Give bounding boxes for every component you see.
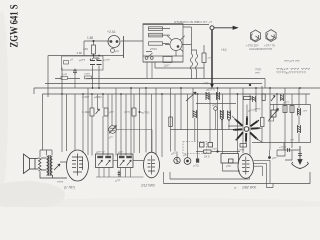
svg-text:4.80: 4.80	[77, 51, 83, 55]
svg-text:1,88: 1,88	[87, 36, 93, 40]
node dot	[96, 59, 97, 60]
wire arrow right	[214, 26, 238, 29]
node dots coils	[221, 119, 223, 121]
svg-text:µ??: µ??	[272, 156, 277, 160]
wire top bus	[143, 24, 209, 26]
wire	[245, 141, 247, 144]
resistor R12	[204, 150, 212, 153]
wire	[192, 88, 194, 110]
resistor R3	[149, 33, 163, 37]
svg-text:+10: +10	[221, 48, 227, 52]
wire	[133, 94, 135, 153]
svg-text:µ??: µ??	[118, 150, 123, 154]
wire coil drops	[195, 110, 229, 141]
wire right area	[270, 105, 311, 143]
tube socket hexagon H2	[266, 30, 276, 42]
wire corner	[264, 79, 266, 89]
coil L2	[206, 92, 209, 100]
wire	[254, 160, 270, 183]
wire	[266, 184, 273, 188]
wire	[163, 172, 165, 184]
wire	[47, 56, 49, 98]
resistor R9	[132, 108, 136, 116]
wire	[171, 129, 235, 131]
shield box around caps	[62, 56, 104, 70]
power unit box T1	[143, 24, 204, 79]
capacitor C6	[288, 148, 290, 152]
resistor R2	[149, 27, 163, 31]
wire	[276, 94, 278, 112]
potentiometer P2	[271, 96, 275, 102]
wire	[254, 163, 267, 187]
capacitor block dark	[196, 159, 199, 163]
resistor R7	[90, 108, 94, 116]
loudspeaker LS1	[24, 154, 36, 174]
right bottom wires	[277, 150, 292, 160]
wire	[249, 94, 251, 155]
svg-text:160: 160	[83, 47, 88, 51]
wire	[94, 41, 100, 58]
title ZGW 641 S	[7, 4, 21, 47]
svg-text:4.4?: 4.4?	[62, 73, 68, 77]
wire	[47, 150, 53, 155]
earth anchor symbol	[292, 146, 309, 169]
tube socket hexagon H1	[250, 30, 260, 42]
wire	[40, 172, 67, 179]
svg-text:µ?Ω: µ?Ω	[194, 164, 199, 168]
node bus junction dots	[61, 84, 301, 95]
svg-text:µ(Ω??): µ(Ω??)	[206, 88, 215, 92]
wire	[116, 130, 152, 153]
bottom long bus	[164, 172, 311, 184]
node grid stopper	[118, 171, 121, 178]
svg-text:µ?? ??: µ?? ??	[96, 150, 105, 154]
resistor in box	[64, 61, 69, 65]
coil L6	[228, 111, 231, 120]
wire	[143, 62, 204, 68]
wire	[277, 149, 300, 151]
wire	[155, 88, 157, 154]
svg-text:µ??: µ??	[171, 152, 176, 156]
wire	[269, 150, 271, 158]
svg-text:????: ????	[57, 180, 64, 184]
svg-text:≈????: ≈????	[279, 146, 287, 150]
wire	[96, 176, 144, 178]
capacitor block C5	[283, 106, 294, 113]
wire	[174, 94, 176, 152]
wire	[45, 83, 262, 85]
svg-text:12A?: 12A?	[164, 64, 171, 68]
svg-text:µ??: µ??	[108, 136, 113, 140]
tube V4 (UBL / AZ)	[238, 154, 254, 179]
svg-text:ZGW 641 S: ZGW 641 S	[7, 4, 21, 47]
wire	[35, 158, 47, 170]
svg-text:1/BZ W00: 1/BZ W00	[242, 186, 256, 190]
wire	[237, 94, 239, 154]
wire IF can drops	[96, 168, 144, 178]
svg-text:µF: µF	[116, 49, 120, 53]
wire	[34, 87, 320, 89]
wire	[55, 78, 265, 80]
jack J1	[111, 49, 115, 53]
wire	[84, 40, 143, 42]
wire	[183, 27, 197, 79]
IF can Z1	[96, 154, 114, 168]
varistor box D1	[269, 109, 279, 121]
voice coil zigzag	[39, 158, 42, 172]
wire	[43, 93, 311, 95]
wire thick vertical drop	[211, 30, 213, 85]
wire	[285, 150, 292, 160]
fuse box F2	[163, 57, 172, 63]
potentiometer P1	[96, 109, 100, 114]
svg-text:??? µ?? ???: ??? µ?? ???	[284, 59, 300, 63]
svg-text:µ???: µ???	[283, 101, 289, 105]
wire	[197, 94, 199, 159]
coil L3	[217, 92, 220, 100]
svg-text:+2 A1: +2 A1	[107, 30, 116, 34]
svg-text:µ??: µ??	[116, 179, 121, 183]
wire	[176, 152, 178, 158]
resistor R4	[202, 53, 206, 63]
wire	[43, 94, 53, 150]
switch S1	[146, 52, 153, 58]
wire	[147, 62, 152, 79]
node dot	[90, 59, 91, 60]
node dot	[98, 55, 100, 57]
output transformer T2	[47, 155, 61, 176]
trimmer capacitor CT1	[109, 126, 117, 134]
svg-text:µ(?): µ(?)	[212, 103, 217, 107]
wire	[113, 160, 118, 162]
svg-text:µ???: µ???	[254, 107, 261, 111]
wire	[261, 127, 263, 143]
node dot	[98, 87, 100, 89]
svg-text:(≈??: (≈??	[104, 58, 110, 62]
wire	[97, 94, 99, 110]
wire	[284, 88, 286, 150]
wire	[120, 94, 122, 156]
jack circle J3	[184, 158, 191, 165]
wire	[125, 94, 127, 156]
wire	[161, 94, 163, 157]
resistor R1	[92, 45, 96, 54]
svg-text:µ(F): µ(F)	[203, 81, 209, 85]
svg-text:µ??: µ??	[183, 153, 188, 157]
svg-text:µ?0: µ?0	[226, 164, 231, 168]
wire	[93, 58, 100, 88]
wire	[60, 161, 144, 163]
wire	[83, 41, 85, 56]
wire	[255, 88, 257, 112]
svg-text:≈µ??Ω: ≈µ??Ω	[141, 111, 149, 115]
wire	[33, 88, 35, 94]
wire	[196, 151, 240, 153]
wire	[151, 94, 153, 152]
coil L5	[220, 110, 223, 119]
node dot	[139, 111, 141, 113]
coil L7	[298, 108, 301, 116]
wire	[298, 116, 300, 143]
wire	[269, 88, 271, 150]
resistor R13	[244, 97, 252, 100]
coil L10	[281, 94, 284, 101]
node dot	[216, 150, 218, 152]
wire	[107, 94, 109, 156]
wire	[115, 88, 117, 156]
svg-text:2/1Z W00: 2/1Z W00	[140, 184, 155, 188]
jack circle J2	[174, 157, 180, 163]
wire	[61, 68, 63, 95]
svg-text:????µ???????: ????µ???????	[276, 71, 307, 75]
svg-text:???: ???	[255, 71, 260, 75]
wire	[261, 86, 263, 117]
wire	[242, 88, 244, 153]
wire	[102, 94, 104, 156]
svg-text:0,1MΩ: 0,1MΩ	[82, 110, 90, 114]
svg-text:≈???: ≈???	[243, 93, 249, 97]
resistor R8	[104, 108, 108, 116]
wire	[66, 94, 68, 151]
rectifier tube V1	[170, 39, 182, 51]
wire	[170, 88, 172, 152]
node dot	[92, 87, 94, 89]
wire	[223, 163, 241, 171]
wire	[170, 172, 250, 179]
rotary switch S2	[233, 116, 260, 143]
svg-text:N?NBUN UN WBO OY +?: N?NBUN UN WBO OY +?	[174, 20, 213, 24]
svg-text:(??: (??	[290, 138, 294, 142]
tube V2 (UCH)	[67, 150, 89, 181]
wire	[91, 94, 93, 156]
wire diagonal	[257, 139, 262, 142]
resistor R11	[261, 118, 265, 127]
wire	[180, 88, 182, 130]
wire	[217, 88, 219, 152]
magic eye box U1	[221, 154, 239, 164]
wire	[74, 75, 76, 88]
wire	[277, 150, 285, 156]
svg-text:(≈t?): (≈t?)	[124, 110, 130, 114]
wire	[298, 88, 300, 108]
component row top	[244, 94, 284, 102]
svg-text:≈??: ≈??	[303, 109, 308, 113]
capacitor bar	[123, 36, 125, 58]
wire	[82, 94, 84, 153]
wire	[187, 94, 189, 158]
coil L9	[253, 96, 256, 102]
wire	[130, 88, 132, 156]
heater cable L1	[190, 54, 197, 70]
dashed block outline	[183, 142, 207, 154]
wire	[228, 105, 262, 129]
wire	[143, 55, 183, 57]
fuse F1	[108, 36, 120, 48]
wire	[74, 94, 76, 150]
wire	[40, 150, 43, 157]
resistor R3b	[149, 42, 163, 45]
capacitor box S2a	[240, 144, 247, 148]
wire	[163, 29, 171, 44]
wire	[254, 166, 263, 176]
wire long mid	[252, 142, 311, 144]
node junction dot	[93, 40, 95, 42]
wire	[268, 105, 274, 122]
node pin circle	[214, 107, 218, 111]
resistor R6 (row)	[85, 76, 92, 79]
capacitor C1	[90, 61, 102, 65]
svg-text:AUAURURUTO?N: AUAURURUTO?N	[249, 47, 272, 51]
node arrowhead to bus	[210, 84, 214, 89]
wire	[111, 94, 113, 126]
resistor R14	[262, 94, 265, 101]
svg-text:24.0: 24.0	[204, 155, 210, 159]
wire	[61, 94, 63, 152]
IF can Z2	[118, 154, 134, 168]
svg-text:µ(??: µ(??	[79, 58, 85, 62]
node dot	[268, 156, 271, 159]
node dot	[93, 55, 95, 57]
wire	[222, 94, 224, 154]
capacitor C3	[73, 69, 77, 76]
wire	[139, 88, 141, 153]
variable arrow	[186, 92, 196, 101]
wire	[196, 103, 236, 105]
capacitor row C4	[200, 143, 213, 148]
wire	[209, 94, 211, 142]
coil L7b	[298, 125, 301, 133]
wire	[145, 88, 147, 153]
svg-text:µ??: µ??	[109, 110, 114, 114]
svg-text:≈??: ≈??	[208, 56, 213, 60]
midband vertical wires	[62, 86, 306, 159]
wire	[48, 55, 124, 57]
tube V3 (ECH)	[144, 152, 160, 178]
node junction circle	[210, 26, 214, 30]
wire	[291, 94, 293, 148]
wire	[87, 88, 89, 155]
resistor R5 (row)	[61, 77, 68, 80]
resistor R10	[169, 117, 173, 127]
wire	[229, 88, 231, 115]
wire	[305, 94, 307, 105]
svg-text:≈??: ≈??	[212, 147, 217, 151]
wire	[283, 143, 285, 151]
svg-text:(U 7B?): (U 7B?)	[64, 186, 75, 190]
svg-text:2?0V: 2?0V	[150, 47, 157, 51]
wire	[254, 150, 273, 188]
svg-text:(?: (?	[234, 186, 237, 190]
coil L4	[193, 110, 197, 118]
wire	[203, 45, 205, 79]
svg-text:≈???: ≈???	[84, 72, 90, 76]
